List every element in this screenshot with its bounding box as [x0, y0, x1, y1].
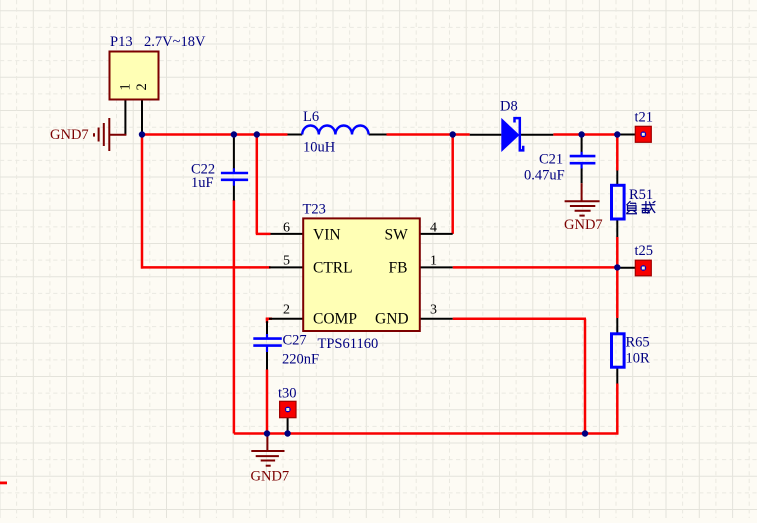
svg-text:GND7: GND7	[564, 217, 603, 233]
svg-text:COMP: COMP	[313, 311, 357, 328]
svg-text:5: 5	[283, 253, 290, 268]
svg-text:2: 2	[134, 83, 150, 90]
svg-text:1uF: 1uF	[191, 175, 214, 191]
svg-text:2: 2	[283, 303, 290, 318]
svg-text:2.7V~18V: 2.7V~18V	[144, 34, 206, 50]
svg-text:T23: T23	[303, 202, 326, 218]
svg-text:FB: FB	[389, 259, 408, 276]
svg-text:D8: D8	[500, 99, 518, 115]
svg-text:SW: SW	[385, 226, 409, 243]
svg-text:P13: P13	[110, 34, 133, 50]
svg-text:C21: C21	[539, 152, 563, 168]
svg-text:3: 3	[430, 303, 437, 318]
svg-text:4: 4	[430, 221, 437, 236]
svg-text:220nF: 220nF	[282, 352, 319, 368]
svg-text:6: 6	[283, 221, 290, 236]
svg-text:GND7: GND7	[50, 127, 89, 143]
svg-text:0.47uF: 0.47uF	[524, 167, 565, 183]
svg-text:R51: R51	[629, 187, 653, 203]
svg-text:L6: L6	[303, 109, 319, 125]
svg-text:10R: 10R	[626, 351, 651, 367]
svg-text:VIN: VIN	[313, 226, 341, 243]
svg-text:TPS61160: TPS61160	[318, 336, 379, 352]
svg-text:t30: t30	[278, 385, 297, 401]
svg-text:1: 1	[430, 253, 437, 268]
svg-text:10uH: 10uH	[303, 140, 336, 156]
svg-text:1: 1	[118, 83, 134, 90]
svg-text:t21: t21	[635, 110, 654, 126]
svg-text:t25: t25	[635, 243, 654, 259]
svg-text:GND: GND	[375, 311, 409, 328]
svg-text:CTRL: CTRL	[313, 259, 353, 276]
svg-text:GND7: GND7	[251, 468, 290, 484]
svg-text:C27: C27	[283, 333, 307, 349]
svg-text:R65: R65	[626, 335, 650, 351]
